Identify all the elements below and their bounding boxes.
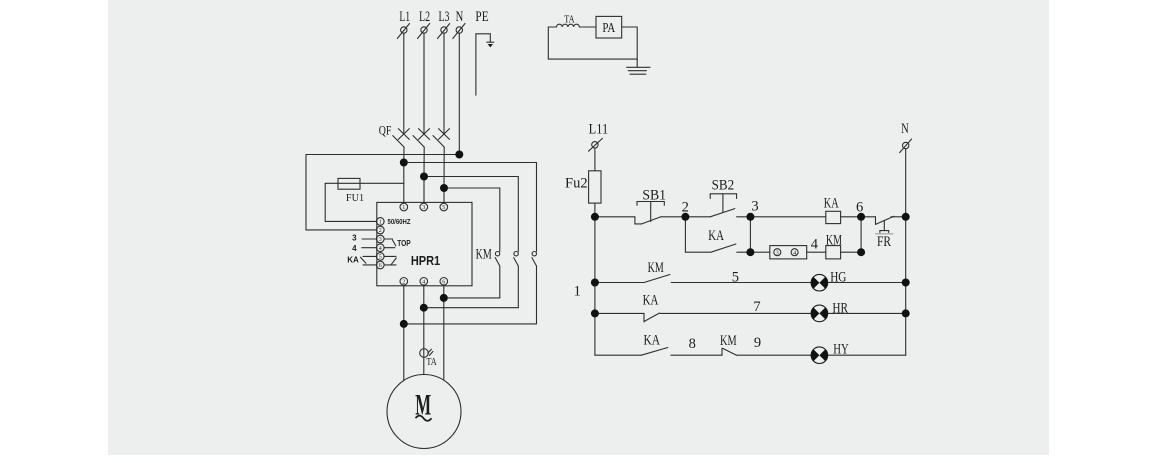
svg-text:FR: FR xyxy=(877,232,891,249)
svg-text:N: N xyxy=(901,121,909,137)
svg-text:7: 7 xyxy=(753,299,760,315)
svg-text:HY: HY xyxy=(833,341,848,357)
svg-text:3: 3 xyxy=(776,250,779,256)
svg-text:5: 5 xyxy=(442,205,445,211)
svg-text:Fu2: Fu2 xyxy=(565,175,588,191)
svg-text:4: 4 xyxy=(352,244,357,253)
svg-text:6: 6 xyxy=(442,280,445,286)
svg-text:L11: L11 xyxy=(589,121,608,137)
svg-text:SB1: SB1 xyxy=(642,187,666,203)
svg-text:6: 6 xyxy=(856,200,863,216)
svg-text:KA: KA xyxy=(824,195,839,211)
svg-text:FU1: FU1 xyxy=(346,193,364,204)
svg-text:KA: KA xyxy=(643,331,660,348)
svg-text:4: 4 xyxy=(379,246,382,252)
svg-text:TA: TA xyxy=(426,356,436,368)
svg-text:6: 6 xyxy=(379,263,382,269)
svg-text:L2: L2 xyxy=(419,8,430,24)
svg-text:1: 1 xyxy=(402,205,405,211)
svg-text:3: 3 xyxy=(751,198,758,214)
svg-text:HG: HG xyxy=(830,268,846,285)
svg-text:HR: HR xyxy=(832,299,848,316)
svg-text:PA: PA xyxy=(602,20,615,36)
svg-text:4: 4 xyxy=(811,237,819,253)
svg-text:2: 2 xyxy=(682,200,689,216)
svg-text:2: 2 xyxy=(402,280,405,286)
svg-text:KA: KA xyxy=(708,228,724,244)
svg-text:L3: L3 xyxy=(439,8,450,24)
svg-text:50/60HZ: 50/60HZ xyxy=(388,218,411,226)
svg-text:8: 8 xyxy=(689,336,696,352)
svg-text:5: 5 xyxy=(379,255,382,261)
svg-text:1: 1 xyxy=(574,283,581,299)
svg-text:4: 4 xyxy=(422,280,425,286)
svg-text:PE: PE xyxy=(475,8,488,25)
svg-text:4: 4 xyxy=(793,250,796,256)
svg-text:KM: KM xyxy=(826,232,842,248)
svg-text:5: 5 xyxy=(732,270,739,286)
svg-text:9: 9 xyxy=(754,335,761,351)
svg-text:KM: KM xyxy=(476,245,492,261)
svg-text:KA: KA xyxy=(347,255,359,264)
svg-text:3: 3 xyxy=(379,237,382,243)
svg-text:3: 3 xyxy=(422,205,425,211)
svg-text:KM: KM xyxy=(648,259,664,275)
svg-text:3: 3 xyxy=(352,234,357,243)
svg-text:KA: KA xyxy=(643,292,659,308)
svg-text:N: N xyxy=(456,8,464,24)
svg-text:2: 2 xyxy=(379,228,382,234)
svg-text:L1: L1 xyxy=(399,8,410,24)
svg-text:1: 1 xyxy=(379,220,382,226)
svg-text:QF: QF xyxy=(379,124,392,138)
svg-text:KM: KM xyxy=(720,332,737,348)
svg-text:TOP: TOP xyxy=(397,238,410,248)
svg-text:SB2: SB2 xyxy=(712,177,735,193)
svg-text:HPR1: HPR1 xyxy=(411,254,441,268)
svg-text:TA: TA xyxy=(564,13,574,25)
